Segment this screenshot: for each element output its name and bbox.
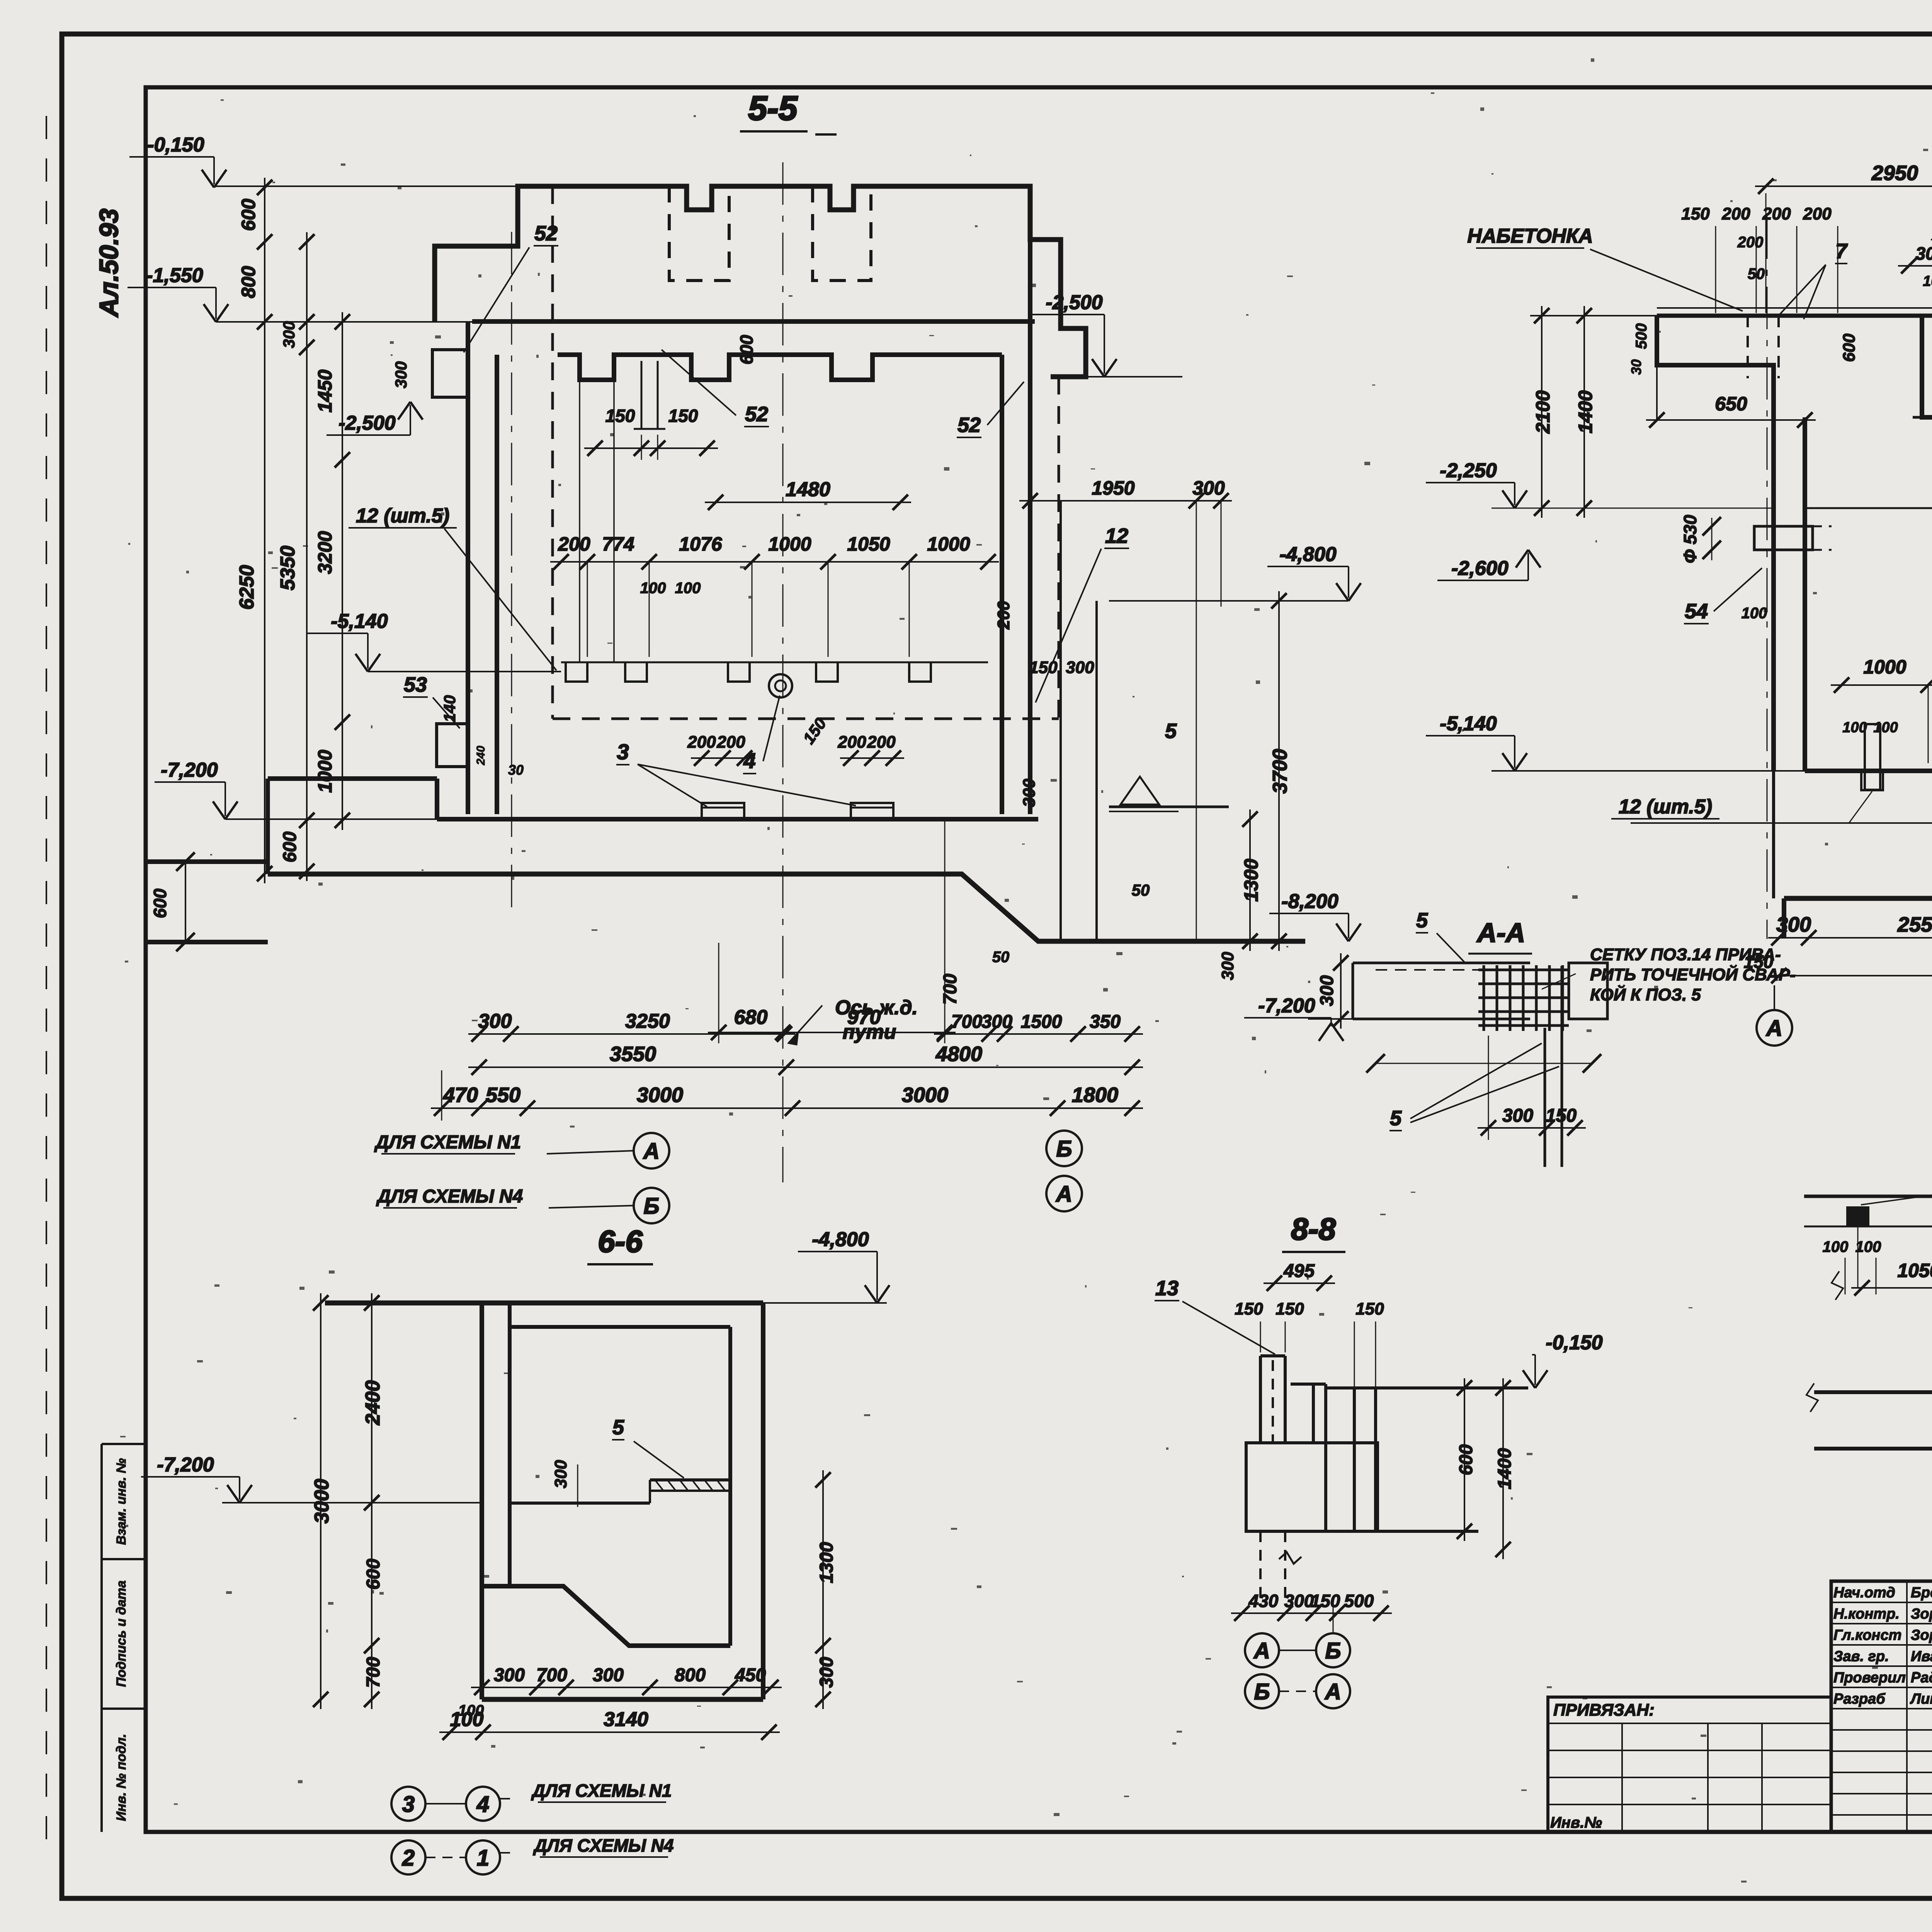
- svg-text:300: 300: [1916, 243, 1932, 264]
- 8-8 bottom dims: [1231, 1612, 1392, 1614]
- svg-text:Подпись и дата: Подпись и дата: [114, 1580, 129, 1687]
- 5-5 floor line: [437, 817, 1038, 821]
- svg-text:600: 600: [736, 335, 757, 364]
- svg-text:Б: Б: [1254, 1679, 1270, 1704]
- svg-text:100: 100: [675, 580, 701, 597]
- svg-text:50: 50: [992, 949, 1010, 966]
- svg-text:300: 300: [981, 1012, 1012, 1032]
- svg-text:8-8: 8-8: [1291, 1212, 1336, 1246]
- svg-text:НАБЕТОНКА: НАБЕТОНКА: [1467, 225, 1593, 247]
- svg-text:550: 550: [486, 1083, 520, 1107]
- 5-5 drain circle: [769, 674, 792, 697]
- 8-8 mid column: [1312, 1384, 1315, 1443]
- 5-5 bottom slab: [268, 874, 1305, 941]
- 5-5 formwork post detail: [641, 361, 643, 429]
- svg-text:150: 150: [1546, 1105, 1577, 1126]
- svg-text:200: 200: [1737, 234, 1764, 251]
- 5-5 left vertical dim chain 600-800-6250: [264, 178, 265, 883]
- 5-5 right outer verticals: [1060, 501, 1062, 941]
- svg-text:300: 300: [280, 321, 298, 348]
- svg-text:150: 150: [1235, 1299, 1263, 1318]
- svg-text:300: 300: [494, 1665, 525, 1685]
- 5-5 upper structure outline: [435, 186, 1086, 377]
- svg-text:680: 680: [734, 1006, 768, 1029]
- svg-text:3000: 3000: [637, 1083, 683, 1107]
- svg-text:300: 300: [478, 1010, 512, 1032]
- 6-6 seat ledge: [650, 1478, 730, 1481]
- svg-text:300: 300: [1776, 913, 1811, 936]
- 5-5 dim 680 970 700: [708, 1032, 956, 1033]
- svg-text:3550: 3550: [610, 1043, 656, 1066]
- svg-text:2100: 2100: [1532, 390, 1554, 434]
- svg-text:800: 800: [675, 1665, 706, 1685]
- svg-text:1400: 1400: [1575, 390, 1596, 433]
- 5-5 anchor line at -5,140: [561, 662, 988, 663]
- svg-text:300: 300: [1284, 1591, 1314, 1611]
- svg-text:450: 450: [735, 1665, 766, 1685]
- svg-text:-0,150: -0,150: [147, 134, 204, 156]
- 5-5 scheme circles right: [1046, 1131, 1082, 1166]
- svg-text:700: 700: [536, 1665, 567, 1685]
- svg-text:430: 430: [1248, 1591, 1279, 1611]
- svg-text:2550: 2550: [1897, 913, 1932, 936]
- svg-text:150: 150: [1276, 1299, 1304, 1318]
- 5-5 left vertical dim chain 1450-3200-1000: [342, 312, 343, 830]
- svg-text:-1,550: -1,550: [146, 264, 203, 287]
- 7-7 bottom slab: [1814, 1390, 1932, 1394]
- 2-2 anchor bar detail: [1865, 724, 1880, 790]
- 2-2 dims 800 800: [1931, 239, 1932, 240]
- 5-5 left corbel upper 52: [432, 350, 468, 397]
- svg-text:Иванова: Иванова: [1911, 1648, 1932, 1665]
- svg-text:300: 300: [593, 1665, 624, 1685]
- svg-text:54: 54: [1685, 600, 1708, 623]
- left margin strip cells: [100, 1444, 103, 1832]
- svg-text:3250: 3250: [625, 1010, 670, 1032]
- svg-text:200: 200: [687, 733, 716, 752]
- svg-text:200: 200: [1721, 204, 1750, 223]
- 5-5 underside of top slab: [472, 319, 1035, 324]
- svg-text:12 (шт.5): 12 (шт.5): [1619, 796, 1712, 818]
- 6-6 interior floor: [482, 1586, 730, 1646]
- svg-text:-4,800: -4,800: [812, 1228, 869, 1251]
- 6-6 scheme labels: [391, 1787, 425, 1821]
- svg-text:Взам. инв. №: Взам. инв. №: [114, 1458, 129, 1545]
- 5-5 bottom dim row 3550 4800: [468, 1066, 1143, 1068]
- svg-text:-4,800: -4,800: [1279, 543, 1337, 566]
- svg-text:Бродский: Бродский: [1911, 1585, 1932, 1601]
- svg-text:Ось ж.д.: Ось ж.д.: [835, 997, 918, 1019]
- 5-5 corbel lower 53: [437, 724, 468, 767]
- 8-8 top surface right: [1326, 1386, 1528, 1389]
- svg-text:800: 800: [238, 266, 259, 298]
- svg-text:-8,200: -8,200: [1281, 890, 1338, 913]
- svg-text:5: 5: [1165, 719, 1177, 743]
- svg-text:-5,140: -5,140: [331, 610, 388, 633]
- svg-text:6250: 6250: [236, 565, 258, 610]
- svg-text:пути: пути: [843, 1021, 896, 1043]
- svg-text:700: 700: [940, 974, 961, 1005]
- svg-text:Зорин: Зорин: [1911, 1606, 1932, 1622]
- svg-text:100: 100: [1873, 719, 1898, 736]
- privyazan block: [1548, 1697, 1831, 1832]
- 2-2 top surface with screed: [1657, 307, 1932, 309]
- svg-text:50: 50: [1748, 265, 1765, 282]
- svg-text:1050: 1050: [1897, 1260, 1932, 1281]
- 2-2 left recess block: [1657, 316, 1774, 417]
- svg-text:300: 300: [551, 1460, 570, 1488]
- svg-text:300: 300: [816, 1657, 837, 1688]
- svg-text:6-6: 6-6: [598, 1224, 643, 1259]
- svg-text:1000: 1000: [1863, 656, 1906, 678]
- 2-2 pipe f530: [1754, 526, 1813, 550]
- svg-text:300: 300: [392, 361, 410, 388]
- 2-2 top dim 2950 2950: [1755, 185, 1932, 187]
- 6-6 bottom dims row2: [439, 1731, 780, 1733]
- svg-text:Б: Б: [643, 1194, 659, 1219]
- svg-text:700: 700: [951, 1012, 982, 1032]
- 6-6 left dims 3000 2400: [320, 1293, 321, 1709]
- 5-5 floor ledge left: [268, 776, 437, 781]
- svg-text:300: 300: [1218, 952, 1237, 980]
- svg-text:1300: 1300: [816, 1542, 837, 1583]
- section 5-5 centerline: [782, 162, 784, 1182]
- svg-text:Б: Б: [1325, 1638, 1341, 1663]
- svg-text:-7,200: -7,200: [157, 1454, 214, 1476]
- 8-8 left column: [1259, 1356, 1262, 1443]
- svg-text:500: 500: [1633, 323, 1650, 349]
- 2-2 left hopper: [1922, 316, 1932, 417]
- svg-text:600: 600: [150, 888, 170, 918]
- svg-text:12 (шт.5): 12 (шт.5): [356, 505, 449, 527]
- svg-text:200: 200: [1762, 204, 1791, 223]
- svg-text:200: 200: [1803, 204, 1832, 223]
- svg-text:3140: 3140: [604, 1708, 648, 1731]
- 2-2 floor line: [1805, 769, 1932, 773]
- svg-text:А: А: [1765, 1016, 1782, 1041]
- 5-5 right vertical dims 3700 1300 300: [1278, 591, 1280, 951]
- 6-6 seat step line: [510, 1502, 650, 1505]
- svg-text:3000: 3000: [311, 1479, 333, 1524]
- svg-text:СЕТКУ ПОЗ.14 ПРИВА-: СЕТКУ ПОЗ.14 ПРИВА-: [1590, 945, 1781, 964]
- svg-text:Инв.№: Инв.№: [1550, 1814, 1602, 1831]
- 2-2 wall extensions to slab: [1772, 771, 1775, 898]
- 2-2 dims 300 300 left hopper: [1898, 265, 1932, 267]
- svg-text:1050: 1050: [847, 533, 890, 555]
- svg-text:100: 100: [1855, 1238, 1881, 1255]
- svg-text:2: 2: [402, 1845, 415, 1871]
- 8-8 scheme circles: [1245, 1633, 1279, 1667]
- svg-text:100: 100: [1923, 273, 1932, 289]
- svg-text:350: 350: [1090, 1012, 1121, 1032]
- svg-text:-2,250: -2,250: [1440, 459, 1497, 482]
- 6-6 left dims 600 700: [371, 1493, 372, 1709]
- 5-5 dashed void left: [669, 186, 729, 281]
- svg-text:-0,150: -0,150: [1546, 1332, 1603, 1354]
- 2-2 left rail centerline: [1767, 216, 1768, 939]
- svg-text:600: 600: [1840, 333, 1859, 362]
- A-A dim 300 left: [1340, 953, 1342, 1029]
- 5-5 right wall: [1000, 355, 1004, 814]
- svg-text:52: 52: [534, 222, 558, 245]
- svg-text:-5,140: -5,140: [1440, 713, 1497, 735]
- svg-text:1300: 1300: [1240, 859, 1262, 901]
- A-A dims 300 150: [1478, 1127, 1586, 1129]
- 2-2 joint line -2,250: [1805, 507, 1932, 509]
- svg-text:-2,500: -2,500: [1046, 291, 1103, 314]
- svg-text:1450: 1450: [314, 369, 336, 412]
- svg-text:-2,500: -2,500: [338, 412, 396, 434]
- 5-5 floor rail fastener details: [702, 803, 744, 819]
- svg-text:150: 150: [1681, 204, 1710, 223]
- svg-text:150: 150: [605, 406, 635, 426]
- 7-7 lower line with breaks: [1804, 1226, 1932, 1228]
- svg-text:А-А: А-А: [1476, 918, 1525, 948]
- svg-text:А: А: [1253, 1638, 1270, 1663]
- svg-text:100: 100: [1823, 1238, 1849, 1255]
- svg-text:700: 700: [363, 1657, 384, 1688]
- 5-5 right shoulder level line: [1051, 376, 1182, 378]
- svg-text:Проверил: Проверил: [1833, 1670, 1906, 1686]
- svg-text:500: 500: [1344, 1591, 1374, 1611]
- svg-text:4: 4: [476, 1792, 489, 1817]
- svg-text:3000: 3000: [902, 1083, 948, 1107]
- svg-text:1076: 1076: [679, 533, 722, 555]
- 8-8 right dims 600 1400: [1464, 1378, 1465, 1541]
- 5-5 left vertical dim chain 300-5350-600: [306, 232, 308, 881]
- svg-text:А: А: [1055, 1182, 1072, 1207]
- svg-text:5: 5: [612, 1416, 624, 1439]
- svg-text:1000: 1000: [314, 750, 336, 793]
- svg-text:150: 150: [1355, 1299, 1384, 1318]
- svg-text:Радько: Радько: [1911, 1670, 1932, 1686]
- svg-text:1800: 1800: [1072, 1083, 1118, 1107]
- 7-7 anchors: [1846, 1206, 1869, 1226]
- svg-text:52: 52: [745, 403, 768, 426]
- svg-text:-2,600: -2,600: [1451, 557, 1509, 580]
- svg-text:Разраб: Разраб: [1833, 1691, 1886, 1707]
- svg-text:А: А: [643, 1139, 660, 1164]
- 5-5 left footing step: [148, 859, 268, 864]
- svg-text:3: 3: [617, 740, 629, 764]
- svg-text:650: 650: [1715, 393, 1747, 415]
- 8-8 break symbol: [1279, 1552, 1301, 1564]
- title block signature table: [1831, 1581, 1932, 1832]
- svg-text:1000: 1000: [927, 533, 970, 555]
- svg-text:600: 600: [238, 199, 259, 231]
- 2-2 left vertical dims 2100 1400: [1541, 306, 1543, 518]
- svg-text:ПРИВЯЗАН:: ПРИВЯЗАН:: [1553, 1701, 1655, 1719]
- 5-5 left wall: [466, 321, 470, 814]
- svg-text:ДЛЯ СХЕМЫ N1: ДЛЯ СХЕМЫ N1: [531, 1781, 672, 1801]
- svg-text:30: 30: [508, 762, 524, 778]
- 2-2 walls: [1771, 417, 1776, 771]
- svg-text:13: 13: [1155, 1277, 1179, 1300]
- 6-6 outline outer: [325, 1301, 763, 1306]
- svg-text:100: 100: [1742, 605, 1767, 622]
- svg-text:Инв. № подл.: Инв. № подл.: [114, 1734, 129, 1821]
- svg-text:ДЛЯ СХЕМЫ N1: ДЛЯ СХЕМЫ N1: [374, 1132, 521, 1153]
- 2-2 scheme circles: [1757, 1010, 1792, 1046]
- svg-text:7: 7: [1835, 240, 1848, 263]
- svg-text:150: 150: [1029, 658, 1058, 677]
- svg-text:300: 300: [1020, 779, 1039, 807]
- svg-text:2950: 2950: [1871, 162, 1918, 185]
- svg-text:200: 200: [558, 533, 590, 555]
- 5-5 rebar spacing dims: [550, 561, 999, 563]
- svg-text:100: 100: [458, 1702, 484, 1719]
- 7-7 left break marks: [1806, 1383, 1818, 1412]
- 5-5 dim 1480: [705, 502, 911, 503]
- svg-text:3700: 3700: [1269, 749, 1291, 794]
- svg-text:5: 5: [1390, 1107, 1402, 1130]
- svg-text:100: 100: [1842, 719, 1867, 736]
- svg-text:600: 600: [1456, 1444, 1476, 1475]
- svg-text:ДЛЯ СХЕМЫ N4: ДЛЯ СХЕМЫ N4: [376, 1186, 523, 1207]
- svg-text:495: 495: [1283, 1261, 1315, 1281]
- svg-text:5-5: 5-5: [748, 89, 798, 127]
- 8-8 dim 495: [1264, 1282, 1335, 1284]
- svg-text:3200: 3200: [314, 531, 336, 574]
- 2-2 left surface extension: [1530, 315, 1657, 316]
- svg-text:Гл.конст: Гл.конст: [1833, 1627, 1901, 1643]
- 7-7 top line: [1804, 1195, 1932, 1198]
- svg-text:300: 300: [1066, 658, 1094, 677]
- svg-text:3: 3: [402, 1792, 415, 1817]
- 7-7 leader lines from label: [1861, 1158, 1932, 1205]
- 2-2 bottom dims 300 2550 2550 300: [1768, 937, 1932, 939]
- svg-text:Зав. гр.: Зав. гр.: [1833, 1648, 1889, 1665]
- 5-5 excavation dashed outline: [551, 186, 554, 719]
- 2-2 floor anchors: [1861, 771, 1883, 790]
- svg-text:150: 150: [1311, 1591, 1340, 1611]
- 5-5 bottom dim row 470 550 3000 3000 1800: [431, 1107, 1143, 1109]
- 7-7 spacing dims: [1851, 1287, 1932, 1289]
- 2-2 bottom dim 5700: [1768, 975, 1932, 976]
- svg-text:300: 300: [1317, 975, 1337, 1006]
- svg-text:240: 240: [474, 746, 487, 765]
- svg-text:5350: 5350: [277, 546, 299, 590]
- 2-2 bottom slab: [1784, 896, 1932, 901]
- A-A lower dim line: [1376, 1063, 1592, 1064]
- svg-text:Литвиненко: Литвиненко: [1910, 1691, 1932, 1707]
- svg-text:А: А: [1324, 1679, 1341, 1704]
- svg-text:Б: Б: [1056, 1136, 1072, 1162]
- left page edge dashes: [46, 116, 47, 1855]
- 2-2 rebar spacing dims: [1831, 684, 1932, 686]
- svg-text:-7,200: -7,200: [1258, 995, 1315, 1017]
- 5-5 dashed void right: [813, 186, 871, 281]
- 5-5 bottom dim row 300 3250 etc: [468, 1033, 795, 1035]
- svg-text:Ал.50.93: Ал.50.93: [94, 209, 124, 318]
- 6-6 top level line extension: [763, 1302, 887, 1304]
- svg-text:53: 53: [404, 673, 427, 696]
- section 5-5 left rail centerline: [511, 232, 512, 912]
- svg-text:200: 200: [867, 733, 896, 752]
- 5-5 dims 1950 300: [1019, 500, 1232, 502]
- 5-5 embed plate verticals: [579, 380, 580, 662]
- 6-6 bottom dims row1: [471, 1687, 782, 1688]
- A-A slab outline: [1353, 962, 1530, 964]
- svg-text:-7,200: -7,200: [161, 759, 218, 781]
- svg-text:774: 774: [602, 533, 634, 555]
- svg-text:50: 50: [1132, 881, 1150, 899]
- svg-text:1950: 1950: [1092, 477, 1134, 499]
- svg-text:Н.контр.: Н.контр.: [1833, 1606, 1900, 1622]
- svg-text:1: 1: [477, 1845, 489, 1871]
- svg-text:52: 52: [957, 413, 981, 437]
- svg-text:150: 150: [668, 406, 698, 426]
- svg-text:2400: 2400: [362, 1380, 384, 1425]
- svg-text:600: 600: [363, 1559, 384, 1590]
- svg-text:Нач.отд: Нач.отд: [1833, 1585, 1895, 1601]
- svg-text:4800: 4800: [935, 1043, 982, 1066]
- svg-text:Ф 530: Ф 530: [1680, 515, 1700, 563]
- svg-text:ДЛЯ СХЕМЫ N4: ДЛЯ СХЕМЫ N4: [532, 1835, 673, 1855]
- svg-text:5: 5: [1416, 909, 1428, 932]
- 2-2 dim 650 left: [1646, 419, 1816, 421]
- svg-text:1400: 1400: [1495, 1448, 1515, 1489]
- svg-text:1480: 1480: [786, 478, 830, 501]
- svg-text:30: 30: [1628, 359, 1644, 375]
- A-A mesh grid: [1483, 965, 1485, 1031]
- 8-8 lower block: [1246, 1443, 1378, 1531]
- svg-text:12: 12: [1105, 524, 1128, 548]
- svg-text:200: 200: [716, 733, 745, 752]
- svg-text:200: 200: [837, 733, 866, 752]
- 5-5 castellated corbel line: [558, 355, 1002, 380]
- svg-text:1500: 1500: [1021, 1012, 1062, 1032]
- A-A mesh right leg: [1561, 966, 1563, 1167]
- svg-text:100: 100: [640, 580, 666, 597]
- svg-text:1000: 1000: [768, 533, 811, 555]
- svg-text:РИТЬ ТОЧЕЧНОЙ СВАР-: РИТЬ ТОЧЕЧНОЙ СВАР-: [1590, 964, 1796, 984]
- svg-text:300: 300: [1192, 477, 1225, 499]
- svg-text:600: 600: [280, 832, 300, 862]
- svg-text:Зорин: Зорин: [1911, 1627, 1932, 1643]
- svg-text:200: 200: [994, 601, 1013, 630]
- svg-text:470: 470: [443, 1083, 478, 1107]
- svg-text:300: 300: [1502, 1105, 1533, 1126]
- 6-6 outline inner: [510, 1325, 730, 1329]
